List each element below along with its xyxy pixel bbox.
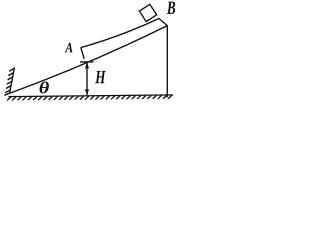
incline hypotenuse (also plank bottom edge) xyxy=(10,26,168,94)
plank A right end edge xyxy=(159,19,167,26)
label A xyxy=(65,43,73,53)
left support wall xyxy=(10,68,15,94)
plank A left end edge xyxy=(81,48,84,59)
label H xyxy=(95,71,106,83)
block B square xyxy=(139,4,156,21)
H dimension arrow stem xyxy=(86,63,88,95)
H dimension top tick xyxy=(80,61,94,63)
left wall hatching xyxy=(4,68,14,95)
ground line xyxy=(7,95,173,101)
right wall of incline xyxy=(166,26,168,98)
label theta xyxy=(40,82,49,94)
plank A top edge xyxy=(81,19,159,48)
label B xyxy=(167,2,175,14)
ground hatching xyxy=(7,95,172,100)
H arrowhead down xyxy=(85,89,89,95)
H arrowhead up xyxy=(85,62,89,68)
